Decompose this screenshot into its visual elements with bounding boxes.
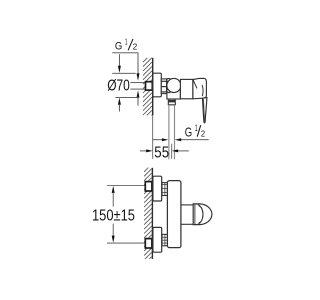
pipe stub behind wall (130, 82, 145, 84)
svg-text:1: 1 (125, 38, 128, 47)
extension line from wall down to 55 dim (152, 115, 154, 159)
svg-text:2: 2 (201, 130, 206, 139)
cartridge neck (front view) (181, 204, 193, 206)
G1/2 top underline (112, 52, 138, 54)
svg-text:2: 2 (133, 43, 138, 52)
G1/2 bottom leader arrows (153, 139, 163, 141)
outlet collar (168, 100, 175, 104)
top escutcheon (front view) (153, 176, 162, 201)
svg-text:G: G (185, 124, 192, 139)
cartridge housing (180, 79, 193, 98)
svg-text:Ø70: Ø70 (107, 78, 130, 95)
wall hatching (top view) (143, 58, 152, 116)
shower pipe (168, 105, 170, 160)
150+-15 dimension line + arrows (112, 186, 115, 193)
ring collar (167, 79, 171, 93)
cap-lever junction line (193, 80, 197, 89)
escutcheon flange (top view) (153, 73, 161, 97)
ball joint (167, 78, 181, 92)
mixer body (front view) (167, 181, 181, 248)
lever blade (203, 98, 207, 123)
top connector nut (front view) (162, 183, 168, 196)
dome crescent (198, 205, 203, 225)
svg-text:150±15: 150±15 (92, 208, 135, 225)
top supply nut (front view) (145, 182, 152, 191)
supply nut behind wall (146, 82, 153, 90)
union nut stack (161, 79, 166, 94)
55 dimension (140, 150, 147, 152)
svg-text:1: 1 (195, 123, 198, 133)
G1/2 top leader + arrows (137, 53, 139, 74)
wall hatching (front view) (144, 168, 152, 259)
150+-15 extension lines (107, 185, 145, 187)
O70 dimension (118, 54, 120, 66)
svg-text:55: 55 (154, 144, 169, 161)
cap (193, 78, 207, 99)
dome cap (front view) (193, 204, 212, 225)
bottom escutcheon (front view) (153, 227, 162, 252)
bottom supply nut (front view) (145, 239, 152, 248)
wall face line (top view) (152, 58, 154, 116)
bottom connector nut (front view) (162, 234, 168, 245)
body lower block (167, 86, 181, 99)
cap crescent (202, 85, 203, 96)
wall face line (front view) (151, 168, 153, 259)
svg-text:G: G (115, 41, 123, 53)
outlet neck (168, 99, 170, 100)
